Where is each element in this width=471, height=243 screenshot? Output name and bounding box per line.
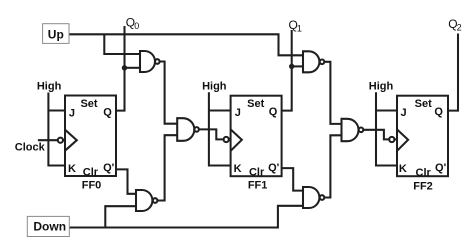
- svg-text:Clock: Clock: [15, 142, 46, 154]
- svg-text:High: High: [202, 80, 227, 92]
- svg-text:K: K: [234, 163, 242, 175]
- svg-text:Set: Set: [247, 98, 264, 110]
- svg-text:Q': Q': [435, 162, 447, 174]
- svg-text:Q': Q': [103, 162, 115, 174]
- svg-text:Q: Q: [269, 106, 278, 118]
- svg-text:FF2: FF2: [413, 181, 433, 193]
- svg-text:Up: Up: [48, 27, 64, 41]
- svg-text:Q: Q: [434, 106, 443, 118]
- svg-text:K: K: [68, 163, 76, 175]
- svg-text:Clr: Clr: [416, 167, 432, 179]
- svg-text:High: High: [37, 80, 62, 92]
- svg-text:High: High: [369, 80, 394, 92]
- svg-text:Q: Q: [103, 107, 112, 119]
- svg-text:FF1: FF1: [248, 180, 268, 192]
- svg-text:K: K: [399, 163, 407, 175]
- svg-text:Q': Q': [268, 162, 280, 174]
- svg-text:Clr: Clr: [83, 167, 99, 179]
- svg-text:0: 0: [134, 21, 139, 31]
- svg-text:Set: Set: [80, 98, 97, 110]
- svg-text:J: J: [401, 107, 407, 119]
- svg-text:2: 2: [457, 22, 462, 32]
- svg-text:Set: Set: [415, 98, 432, 110]
- svg-text:FF0: FF0: [82, 180, 102, 192]
- svg-text:J: J: [235, 107, 241, 119]
- svg-text:Clr: Clr: [249, 167, 265, 179]
- svg-text:Down: Down: [33, 219, 66, 233]
- svg-text:1: 1: [297, 24, 302, 34]
- svg-text:J: J: [69, 108, 75, 120]
